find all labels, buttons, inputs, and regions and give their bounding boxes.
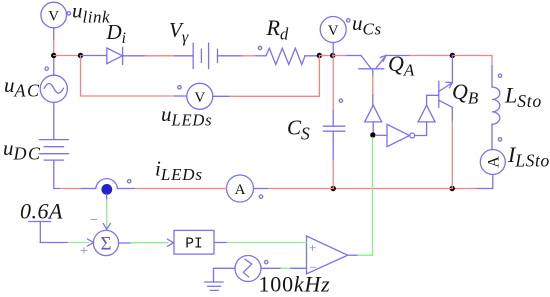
- wire: [68, 242, 89, 244]
- wire: [53, 103, 55, 140]
- wire: [415, 122, 427, 136]
- wire: [476, 175, 493, 189]
- wire: [305, 55, 319, 57]
- wire Cs top: [332, 56, 335, 112]
- wire: [230, 56, 319, 97]
- inverter NOT gate: [387, 124, 415, 146]
- svg-text:V: V: [328, 23, 339, 39]
- polarity marker: [498, 138, 501, 141]
- wire: [53, 59, 55, 76]
- PI controller box: [174, 230, 214, 254]
- wire: [332, 131, 334, 160]
- svg-text:A: A: [485, 156, 502, 168]
- wire: [281, 267, 291, 269]
- wire: [491, 66, 493, 87]
- wire: [59, 188, 81, 190]
- svg-text:+: +: [309, 240, 316, 255]
- arrow into summer: [88, 239, 94, 246]
- voltmeter U1 u_link: [41, 2, 71, 28]
- wire: [54, 55, 81, 57]
- svg-text:Vγ: Vγ: [169, 18, 189, 46]
- arrow into PI: [168, 239, 174, 246]
- svg-text:Di: Di: [106, 20, 126, 47]
- svg-text:+: +: [80, 244, 88, 259]
- current probe i_LEDs: [96, 179, 131, 189]
- wire: [451, 107, 453, 121]
- node junction: [331, 186, 336, 191]
- wire: [427, 95, 439, 105]
- wire: [451, 56, 453, 83]
- transistor Q_A: [359, 56, 386, 69]
- inductor L_Sto: [492, 87, 500, 124]
- wire: [332, 111, 334, 126]
- wire: [175, 55, 193, 57]
- svg-text:V: V: [194, 90, 205, 106]
- svg-text:100kHz: 100kHz: [259, 272, 331, 297]
- wire: [214, 242, 227, 244]
- battery V_gamma: [193, 43, 217, 68]
- wire: [218, 55, 243, 57]
- svg-text:0.6A: 0.6A: [20, 199, 63, 224]
- svg-text:Rd: Rd: [266, 15, 289, 44]
- wire: [213, 95, 230, 97]
- wire: [256, 55, 266, 57]
- sawtooth source 100kHz: [235, 256, 268, 282]
- svg-text:CS: CS: [287, 116, 310, 144]
- node junction: [450, 186, 455, 191]
- wire: [80, 188, 95, 190]
- svg-text:−: −: [90, 213, 98, 228]
- wire: [134, 188, 227, 190]
- node junction: [78, 53, 83, 58]
- wire: [333, 55, 347, 57]
- wire: [40, 242, 68, 244]
- wire: [119, 242, 131, 244]
- wire: [53, 40, 55, 56]
- wire: [291, 267, 307, 269]
- wire: [376, 134, 388, 136]
- svg-text:uLEDs: uLEDs: [161, 102, 212, 130]
- wire measured current green: [106, 194, 108, 200]
- battery u_DC: [39, 140, 68, 161]
- wire: [242, 55, 256, 57]
- wire: [118, 188, 135, 190]
- svg-text:V: V: [48, 9, 59, 25]
- wire: [254, 188, 268, 190]
- svg-text:iLEDs: iLEDs: [155, 157, 203, 185]
- signal wire green vertical: [372, 138, 374, 200]
- svg-text:QB: QB: [452, 79, 479, 108]
- arrow into summer top: [103, 224, 110, 230]
- wire: [332, 160, 334, 189]
- transistor Q_A base wire: [372, 69, 374, 76]
- svg-text:uCs: uCs: [352, 11, 382, 39]
- wire: [491, 124, 493, 149]
- wire: [372, 122, 374, 132]
- wire: [452, 188, 476, 190]
- svg-text:ILSto: ILSto: [507, 142, 550, 171]
- wire: [54, 160, 59, 188]
- wire: [451, 121, 453, 189]
- polarity marker: [258, 46, 261, 49]
- comparator output wire: [348, 254, 358, 256]
- svg-text:LSto: LSto: [504, 83, 542, 112]
- wire: [386, 55, 410, 57]
- diode D_i: [107, 47, 123, 64]
- svg-text:Σ: Σ: [100, 234, 111, 255]
- wire: [227, 242, 307, 244]
- svg-text:uAC: uAC: [4, 73, 41, 101]
- node junction: [317, 53, 322, 58]
- wire: [333, 188, 452, 190]
- constant block bar: [29, 222, 51, 243]
- svg-text:A: A: [235, 182, 246, 198]
- node junction: [370, 132, 375, 137]
- voltmeter U2 u_Cs: [320, 17, 350, 56]
- node junction: [51, 53, 56, 58]
- wire: [145, 55, 175, 57]
- node junction: [450, 53, 455, 58]
- svg-text:PI: PI: [185, 237, 202, 253]
- gate driver buffer 2: [418, 105, 435, 122]
- svg-text:uDC: uDC: [3, 136, 42, 164]
- wire: [123, 55, 145, 57]
- wire: [319, 55, 332, 57]
- gate driver buffer 1: [365, 105, 382, 122]
- capacitor C_S: [324, 99, 345, 131]
- wire: [175, 95, 187, 97]
- wire: [53, 28, 55, 40]
- wire: [81, 55, 107, 57]
- wire: [131, 242, 169, 244]
- wire: [261, 267, 281, 269]
- wire: [214, 268, 236, 282]
- node junction: [330, 53, 335, 58]
- voltmeter U5 u_LEDs: [178, 83, 213, 109]
- ground: [205, 282, 223, 290]
- ammeter U4 i_LEDs: [227, 175, 263, 202]
- summer sigma: [93, 230, 118, 255]
- wire: [410, 55, 452, 57]
- wire: [452, 56, 492, 67]
- svg-text:ulink: ulink: [72, 0, 110, 27]
- polarity marker: [498, 74, 501, 77]
- wire: [347, 55, 361, 57]
- resistor R_d: [266, 48, 305, 64]
- transistor Q_B: [439, 81, 453, 107]
- ammeter U3 I_LSto: [480, 150, 505, 175]
- comparator: [307, 236, 348, 274]
- wire red left drop: [81, 56, 176, 97]
- wire: [268, 188, 334, 190]
- source u_AC: [40, 67, 67, 103]
